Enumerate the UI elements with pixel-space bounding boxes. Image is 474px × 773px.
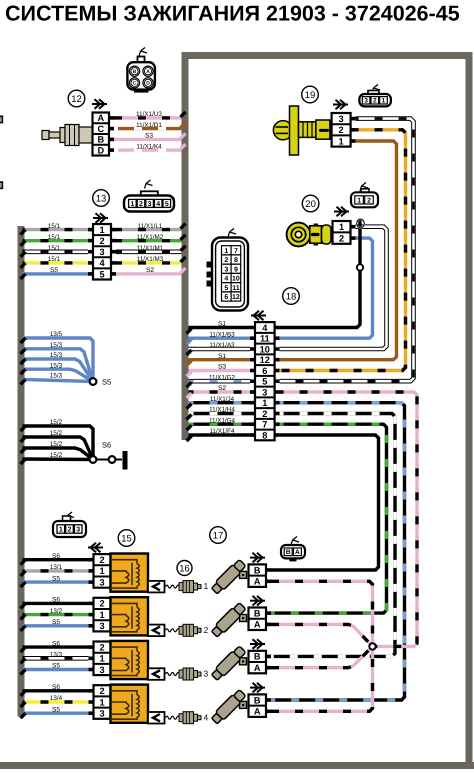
svg-text:A: A xyxy=(97,113,104,123)
svg-text:4: 4 xyxy=(224,276,228,283)
svg-text:15/2: 15/2 xyxy=(50,419,63,426)
svg-text:S5: S5 xyxy=(52,619,60,626)
svg-text:19: 19 xyxy=(305,90,316,101)
svg-text:11/X1/K4: 11/X1/K4 xyxy=(136,143,162,150)
svg-text:1: 1 xyxy=(99,697,104,707)
svg-text:15/3: 15/3 xyxy=(50,352,63,359)
svg-text:2: 2 xyxy=(204,625,209,635)
svg-text:11/X1/M3: 11/X1/M3 xyxy=(137,256,164,263)
svg-text:S3: S3 xyxy=(218,364,226,371)
svg-text:S6: S6 xyxy=(102,441,111,450)
svg-text:S6: S6 xyxy=(52,684,60,691)
svg-text:1: 1 xyxy=(99,610,104,620)
svg-text:11/X1/G4: 11/X1/G4 xyxy=(209,417,235,424)
svg-text:13: 13 xyxy=(96,193,107,204)
svg-text:5: 5 xyxy=(99,269,104,279)
svg-text:16: 16 xyxy=(179,563,190,574)
svg-text:15/3: 15/3 xyxy=(50,362,63,369)
svg-text:11/X1/B3: 11/X1/B3 xyxy=(209,331,235,338)
svg-text:B: B xyxy=(133,69,137,75)
svg-text:1: 1 xyxy=(224,248,228,255)
svg-text:1: 1 xyxy=(204,581,209,591)
svg-text:2: 2 xyxy=(99,642,104,652)
svg-text:3: 3 xyxy=(262,387,267,397)
svg-text:3: 3 xyxy=(99,621,104,631)
svg-text:6: 6 xyxy=(262,366,267,376)
svg-text:3: 3 xyxy=(339,114,344,124)
svg-text:A: A xyxy=(254,620,261,630)
svg-text:15/3: 15/3 xyxy=(50,373,63,380)
svg-text:8: 8 xyxy=(234,257,238,264)
svg-text:15/1: 15/1 xyxy=(48,234,61,241)
svg-text:A: A xyxy=(146,69,150,75)
svg-text:S6: S6 xyxy=(52,553,60,560)
svg-text:11/X1/H4: 11/X1/H4 xyxy=(209,407,235,414)
svg-text:13/5: 13/5 xyxy=(50,331,63,338)
svg-text:15/1: 15/1 xyxy=(48,245,61,252)
svg-text:13/3: 13/3 xyxy=(50,652,63,659)
svg-text:2: 2 xyxy=(99,686,104,696)
svg-text:2: 2 xyxy=(224,257,228,264)
svg-text:10: 10 xyxy=(260,344,270,354)
svg-text:D: D xyxy=(97,145,104,155)
svg-text:15/2: 15/2 xyxy=(50,441,63,448)
svg-text:B: B xyxy=(97,135,104,145)
svg-text:20: 20 xyxy=(305,199,316,210)
svg-text:2: 2 xyxy=(139,201,143,208)
svg-text:2: 2 xyxy=(99,555,104,565)
svg-text:1: 1 xyxy=(339,222,344,232)
svg-text:2: 2 xyxy=(68,527,72,534)
svg-text:1: 1 xyxy=(130,201,134,208)
svg-text:B: B xyxy=(254,608,261,618)
svg-text:СИСТЕМЫ ЗАЖИГАНИЯ 21903 - 3724: СИСТЕМЫ ЗАЖИГАНИЯ 21903 - 3724026-45 xyxy=(5,2,460,26)
svg-text:2: 2 xyxy=(367,197,371,204)
svg-text:11/X1/F4: 11/X1/F4 xyxy=(210,428,235,435)
svg-text:11/X1/A3: 11/X1/A3 xyxy=(209,342,235,349)
svg-text:15: 15 xyxy=(121,533,132,544)
svg-text:1: 1 xyxy=(262,398,267,408)
svg-text:15/2: 15/2 xyxy=(50,430,63,437)
svg-text:S6: S6 xyxy=(52,640,60,647)
svg-text:11/X1/G2: 11/X1/G2 xyxy=(209,374,235,381)
svg-text:11/X1/M1: 11/X1/M1 xyxy=(137,245,164,252)
svg-text:A: A xyxy=(254,577,261,587)
svg-text:11/X1/U3: 11/X1/U3 xyxy=(136,111,162,118)
svg-text:7: 7 xyxy=(234,248,238,255)
svg-text:13/2: 13/2 xyxy=(50,608,63,615)
svg-text:10: 10 xyxy=(232,276,240,283)
svg-text:4: 4 xyxy=(99,258,105,268)
svg-text:A: A xyxy=(295,549,300,556)
svg-text:12: 12 xyxy=(260,355,270,365)
svg-text:18: 18 xyxy=(286,291,297,302)
svg-text:17: 17 xyxy=(213,530,224,541)
svg-text:1: 1 xyxy=(99,566,104,576)
svg-text:11/X1/D1: 11/X1/D1 xyxy=(136,122,162,129)
svg-text:S5: S5 xyxy=(102,378,111,387)
svg-text:15/2: 15/2 xyxy=(50,452,63,459)
svg-text:11: 11 xyxy=(260,334,270,344)
svg-text:7: 7 xyxy=(262,420,267,430)
svg-text:9: 9 xyxy=(234,266,238,273)
svg-text:A: A xyxy=(254,663,261,673)
svg-text:11/X1/M2: 11/X1/M2 xyxy=(137,234,164,241)
svg-text:S5: S5 xyxy=(52,663,60,670)
svg-text:3: 3 xyxy=(364,98,368,105)
svg-text:1: 1 xyxy=(99,225,104,235)
svg-text:8: 8 xyxy=(262,430,267,440)
svg-text:11/X1/J4: 11/X1/J4 xyxy=(210,396,235,403)
svg-text:11/X1/L1: 11/X1/L1 xyxy=(138,223,163,230)
svg-text:2: 2 xyxy=(262,409,267,419)
svg-text:6: 6 xyxy=(224,294,228,301)
svg-text:C: C xyxy=(133,81,137,87)
svg-text:5: 5 xyxy=(224,285,228,292)
svg-text:3: 3 xyxy=(148,201,152,208)
svg-text:13/1: 13/1 xyxy=(50,564,63,571)
svg-text:2: 2 xyxy=(99,236,104,246)
svg-text:12: 12 xyxy=(71,94,82,105)
svg-text:11: 11 xyxy=(232,285,240,292)
svg-text:2: 2 xyxy=(373,98,377,105)
svg-text:S3: S3 xyxy=(145,133,153,140)
svg-text:3: 3 xyxy=(99,577,104,587)
svg-text:S5: S5 xyxy=(52,706,60,713)
svg-text:3: 3 xyxy=(99,247,104,257)
svg-text:D: D xyxy=(146,81,150,87)
svg-text:15/1: 15/1 xyxy=(48,223,61,230)
svg-text:12: 12 xyxy=(232,294,240,301)
svg-text:S6: S6 xyxy=(52,597,60,604)
svg-text:S1: S1 xyxy=(218,321,226,328)
svg-text:1: 1 xyxy=(99,654,104,664)
svg-text:4: 4 xyxy=(204,712,209,722)
svg-text:S2: S2 xyxy=(146,267,154,274)
svg-text:2: 2 xyxy=(99,599,104,609)
svg-text:15/1: 15/1 xyxy=(48,256,61,263)
svg-text:3: 3 xyxy=(204,669,209,679)
svg-text:3: 3 xyxy=(224,266,228,273)
svg-text:5: 5 xyxy=(165,201,169,208)
svg-text:5: 5 xyxy=(262,377,267,387)
svg-text:S5: S5 xyxy=(50,267,58,274)
svg-text:A: A xyxy=(254,707,261,717)
svg-text:2: 2 xyxy=(339,125,344,135)
svg-text:B: B xyxy=(254,652,261,662)
svg-text:15/3: 15/3 xyxy=(50,342,63,349)
svg-text:3: 3 xyxy=(99,665,104,675)
svg-text:1: 1 xyxy=(382,98,386,105)
svg-text:B: B xyxy=(254,565,261,575)
svg-text:B: B xyxy=(254,695,261,705)
svg-text:2: 2 xyxy=(339,233,344,243)
svg-text:13/4: 13/4 xyxy=(50,695,63,702)
svg-text:4: 4 xyxy=(156,201,160,208)
svg-text:3: 3 xyxy=(76,527,80,534)
svg-text:S5: S5 xyxy=(52,575,60,582)
svg-text:B: B xyxy=(286,549,291,556)
svg-text:4: 4 xyxy=(262,323,268,333)
svg-text:3: 3 xyxy=(99,709,104,719)
svg-text:1: 1 xyxy=(357,197,361,204)
svg-text:1: 1 xyxy=(339,136,344,146)
svg-text:S1: S1 xyxy=(218,353,226,360)
svg-text:1: 1 xyxy=(59,527,63,534)
svg-text:S2: S2 xyxy=(218,385,226,392)
svg-text:C: C xyxy=(97,124,104,134)
